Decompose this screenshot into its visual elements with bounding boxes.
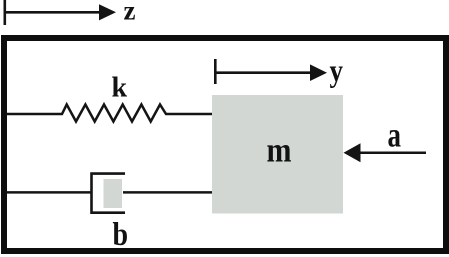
svg-text:z: z xyxy=(124,0,136,26)
svg-text:y: y xyxy=(330,54,344,89)
svg-text:k: k xyxy=(112,73,128,104)
svg-text:a: a xyxy=(388,115,402,154)
svg-text:b: b xyxy=(113,216,129,252)
svg-text:m: m xyxy=(267,131,292,169)
